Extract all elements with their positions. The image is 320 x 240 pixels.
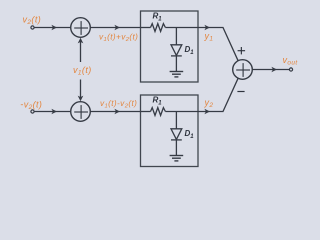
ground (bottom box)	[170, 155, 184, 157]
wire v2 to top summer	[35, 27, 71, 29]
svg-text:v2(t): v2(t)	[23, 15, 42, 27]
wire resistor to box edge (bottom)	[165, 111, 198, 113]
wire y2: box 2 to summer S3	[198, 78, 238, 112]
ground (top box)	[170, 71, 184, 73]
svg-text:v1(t): v1(t)	[73, 65, 92, 77]
box 2 (bottom clipper circuit)	[141, 95, 199, 167]
node vout terminal	[289, 68, 292, 71]
wire to diode D1 (bottom box)	[175, 112, 177, 129]
wire into resistor R1 (bottom)	[141, 111, 151, 113]
wire y1: box 1 to summer S3	[198, 28, 238, 62]
summer S3 (output)	[233, 60, 253, 80]
diode D1 (top box)	[171, 45, 182, 56]
label - (S3 bottom input)	[237, 91, 244, 93]
resistor R1 (top box)	[151, 24, 166, 32]
wire summer S1 to box 1	[90, 27, 140, 29]
box 1 (top clipper circuit)	[141, 11, 199, 82]
wire resistor to box edge (top)	[165, 27, 198, 29]
resistor R1 (bottom box)	[151, 108, 166, 116]
wire summer S2 to box 2	[90, 111, 140, 113]
summer S2 (bottom)	[71, 102, 91, 122]
summer S1 (top)	[71, 18, 91, 38]
label + (S3 top input)	[238, 50, 246, 52]
node v2 input terminal	[31, 26, 34, 29]
node -v2 input terminal	[31, 110, 34, 113]
wire to diode D1 (top box)	[175, 28, 177, 45]
wire v1 vertical (to both summers)	[80, 40, 82, 62]
wire into resistor R1 (top)	[141, 27, 151, 29]
wire S3 to vout	[252, 69, 289, 71]
diode D1 (bottom box)	[171, 129, 182, 140]
wire -v2 to bottom summer	[35, 111, 71, 113]
